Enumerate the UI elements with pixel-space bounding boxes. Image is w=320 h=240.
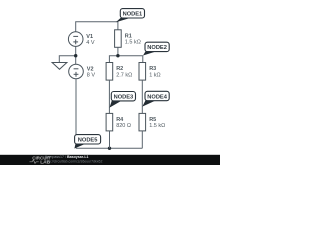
junction node R1 bottom [116, 54, 119, 57]
wire bottom rail [76, 147, 142, 149]
svg-text:NODE5: NODE5 [78, 138, 98, 144]
svg-text:V1: V1 [86, 34, 93, 40]
wire R3 to R5 [141, 80, 143, 113]
label V1 value [86, 34, 95, 46]
ground [52, 63, 67, 70]
svg-text:NODE1: NODE1 [123, 12, 143, 18]
svg-text:820 Ω: 820 Ω [116, 123, 131, 129]
wire R2 to R4 [108, 80, 110, 113]
wire V2 down left side [75, 79, 77, 148]
resistor R2 [106, 63, 113, 81]
wire R4 bottom stub [109, 131, 111, 148]
svg-text:R4: R4 [116, 117, 124, 123]
svg-text:V2: V2 [87, 66, 94, 72]
resistor R4 [106, 113, 113, 130]
svg-text:R1: R1 [125, 33, 132, 39]
resistor R3 [139, 63, 146, 81]
node NODE1 flag [116, 9, 145, 23]
wire R1 bottom to middle rail [117, 47, 119, 55]
wire between V1 and V2 [75, 46, 77, 64]
node NODE2 flag [143, 42, 169, 55]
svg-text:R3: R3 [149, 66, 156, 72]
svg-text:http://circuitlab.com/cs/z6euu: http://circuitlab.com/cs/z6euu/7dkx62 [45, 159, 102, 163]
label R5 value [149, 117, 165, 129]
svg-text:R5: R5 [149, 117, 156, 123]
voltage source V2 [69, 64, 84, 79]
resistor R5 [139, 113, 146, 130]
svg-text:8 V: 8 V [87, 72, 96, 78]
svg-text:Kompass17 / Basoysar-L1: Kompass17 / Basoysar-L1 [45, 155, 89, 159]
svg-text:2.7 kΩ: 2.7 kΩ [116, 72, 132, 78]
svg-text:4 V: 4 V [86, 40, 95, 46]
svg-text:1.5 kΩ: 1.5 kΩ [149, 123, 165, 129]
voltage source V1 [68, 32, 83, 47]
label R1 value [125, 33, 141, 45]
label R4 value [116, 117, 131, 129]
node NODE4 flag [142, 91, 169, 106]
footer banner [0, 155, 220, 165]
footer credit text [45, 155, 102, 163]
svg-text:NODE3: NODE3 [114, 95, 134, 101]
label R3 value [149, 66, 160, 78]
wire R5 bottom stub [141, 131, 143, 148]
footer CircuitLab logo [30, 155, 51, 165]
svg-text:NODE2: NODE2 [147, 45, 167, 51]
junction node between V1 and V2 [74, 54, 77, 57]
svg-text:1 kΩ: 1 kΩ [149, 72, 160, 78]
junction node bottom rail [108, 147, 111, 150]
svg-text:1.5 kΩ: 1.5 kΩ [125, 40, 141, 46]
svg-text:R2: R2 [116, 66, 123, 72]
node NODE5 flag [74, 135, 100, 149]
svg-text:NODE4: NODE4 [147, 94, 167, 100]
wire top rail from V1 to R1 [76, 22, 118, 32]
wire ground rail [59, 56, 75, 63]
label V2 value [87, 66, 96, 78]
wire middle rail [109, 56, 142, 63]
label R2 value [116, 66, 132, 78]
resistor R1 [115, 30, 122, 48]
node NODE3 flag [110, 92, 136, 108]
